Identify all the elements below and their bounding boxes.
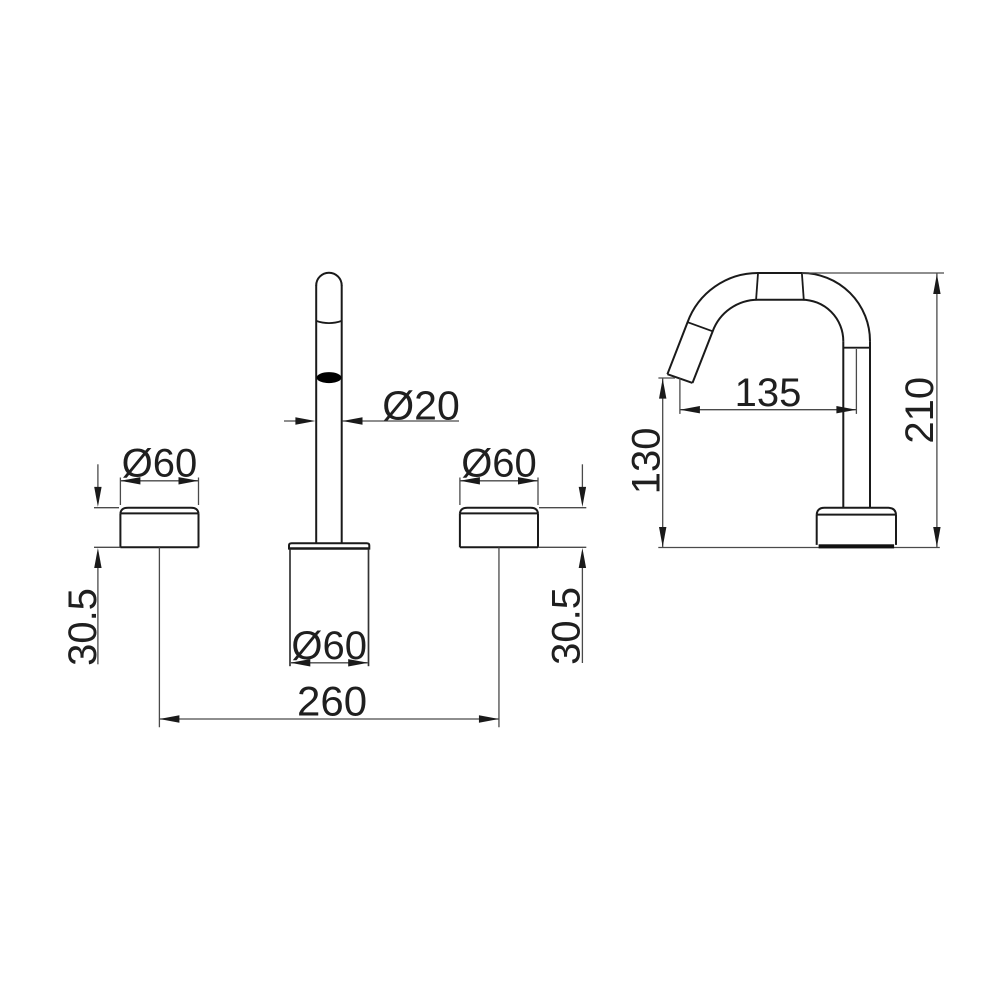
aerator outlet ellipse	[317, 372, 342, 383]
left handle top reference tick	[94, 507, 119, 509]
dim 130: line and arrows	[659, 379, 666, 548]
spout tip face	[667, 374, 692, 383]
left handle	[120, 508, 198, 548]
riser joint line	[843, 347, 870, 349]
svg-text:130: 130	[625, 428, 669, 495]
dim 30.5 right: up arrow and line	[579, 548, 586, 663]
spout base cylinder body	[289, 550, 291, 667]
dim Ø60 right handle	[460, 477, 538, 505]
svg-text:Ø20: Ø20	[382, 383, 460, 429]
svg-text:135: 135	[735, 371, 802, 415]
right handle stem extension line	[498, 547, 500, 727]
gooseneck inner contour	[693, 300, 844, 383]
right handle top reference tick	[539, 507, 586, 509]
base gasket strip	[819, 544, 895, 548]
apex joint line right	[802, 273, 804, 300]
spout base flange	[289, 543, 369, 549]
left handle top reference down arrow	[94, 464, 101, 507]
svg-text:210: 210	[898, 377, 942, 444]
spout tube (front view)	[316, 273, 342, 544]
dim 260: line and arrows	[159, 715, 499, 722]
svg-text:Ø60: Ø60	[291, 624, 367, 668]
dim 130: outlet tick	[658, 377, 675, 379]
left handle stem extension line	[158, 547, 160, 727]
svg-text:Ø60: Ø60	[122, 442, 198, 486]
dim 135: line and arrows	[680, 406, 857, 413]
right handle bottom extension line	[538, 546, 586, 548]
dim 135: extension lines	[679, 378, 681, 414]
apex joint line left	[756, 273, 758, 299]
riser tube walls	[843, 341, 870, 508]
right handle	[460, 508, 538, 548]
dim Ø20 spout: right leader and arrow	[343, 417, 460, 424]
dim Ø60 spout base: line and arrows	[290, 659, 368, 666]
svg-text:30.5: 30.5	[61, 588, 105, 666]
left handle bottom extension line	[94, 546, 120, 548]
dim Ø60 left handle	[120, 477, 198, 505]
spout upper joint line	[316, 321, 342, 323]
dim 210: top extension line	[802, 272, 944, 274]
dim 210: line and arrows	[933, 274, 940, 548]
base (side view)	[817, 508, 896, 545]
nozzle joint line	[688, 322, 713, 331]
svg-text:Ø60: Ø60	[461, 442, 537, 486]
deck reference line	[658, 547, 940, 549]
dim Ø20 spout: left leader and arrow	[284, 417, 315, 424]
right handle top reference down arrow	[579, 464, 586, 507]
dim 30.5 left: up arrow and line	[94, 548, 101, 664]
svg-text:260: 260	[297, 678, 367, 725]
svg-text:30.5: 30.5	[545, 587, 589, 665]
gooseneck outer contour	[667, 273, 870, 374]
